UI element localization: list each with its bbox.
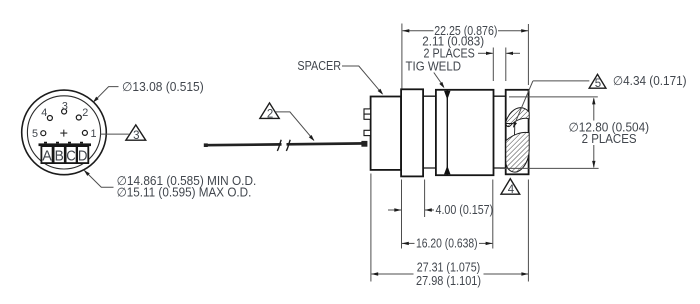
dim 22.25 <box>402 24 528 38</box>
flag triangle 4 <box>501 179 520 197</box>
svg-text:∅13.08 (0.515): ∅13.08 (0.515) <box>122 80 204 94</box>
svg-text:C: C <box>66 149 76 165</box>
weld bead bottom <box>444 166 451 175</box>
svg-text:5: 5 <box>595 78 601 90</box>
svg-text:2: 2 <box>267 108 273 120</box>
svg-text:2 PLACES: 2 PLACES <box>424 47 475 61</box>
terminal box D <box>77 146 88 165</box>
connector face outer circle <box>22 90 107 175</box>
extension line body left bottom <box>370 174 372 282</box>
neck 2 lines <box>494 96 506 168</box>
pin 3 <box>62 109 67 114</box>
extension line neck2 right <box>505 48 507 82</box>
connector body rect <box>371 97 402 170</box>
wire break marks <box>277 140 290 151</box>
lens upper section <box>506 108 529 127</box>
svg-text:4: 4 <box>508 184 515 196</box>
svg-text:3: 3 <box>133 130 139 142</box>
body tab lower <box>364 130 371 135</box>
svg-text:27.98 (1.101): 27.98 (1.101) <box>416 274 481 288</box>
tig weld leader <box>434 73 445 89</box>
svg-text:∅4.34 (0.171): ∅4.34 (0.171) <box>613 74 687 88</box>
pin 2 <box>76 115 81 120</box>
pin 5 <box>41 131 46 136</box>
terminal box B <box>54 146 65 165</box>
dim 16.20 <box>402 237 493 251</box>
lens lower section <box>506 132 529 172</box>
leader dia 14.861 <box>84 170 114 187</box>
extension line neck bottom right <box>500 167 599 169</box>
body tab upper B <box>364 114 371 119</box>
spacer rect <box>401 89 423 176</box>
body tab upper A <box>364 109 371 114</box>
spacer leader <box>342 66 383 95</box>
svg-text:D: D <box>78 149 88 165</box>
weld bead top <box>444 91 451 100</box>
flag triangle 3 <box>126 125 146 142</box>
extension line neck top right <box>509 96 598 98</box>
pin 1 <box>82 130 87 135</box>
leader from triangle 2 to wire <box>276 112 315 141</box>
weld housing rect <box>436 90 494 175</box>
svg-text:A: A <box>42 149 52 165</box>
terminal box A <box>41 146 52 165</box>
terminal box C <box>66 146 77 165</box>
dim 4.00 <box>388 203 493 217</box>
end cap rect <box>506 90 529 175</box>
lead wire <box>204 141 368 147</box>
dim 27.31 27.98 <box>371 261 528 288</box>
svg-text:TIG WELD: TIG WELD <box>406 60 462 74</box>
extension line housing right bottom <box>492 180 494 249</box>
bar stubs <box>46 142 82 144</box>
svg-text:B: B <box>55 149 64 165</box>
dim dia 12.80 vertical <box>569 97 650 167</box>
extension line body-spacer top <box>401 24 403 89</box>
svg-text:4.00 (0.157): 4.00 (0.157) <box>436 203 494 217</box>
extension line body-spacer bottom <box>401 180 403 249</box>
flag triangle 2 <box>260 103 279 121</box>
extension line cap right bottom <box>527 180 529 282</box>
svg-text:1: 1 <box>91 128 97 140</box>
connector face inner circle <box>27 96 100 169</box>
svg-text:4: 4 <box>41 107 47 119</box>
svg-text:∅15.11 (0.595) MAX O.D.: ∅15.11 (0.595) MAX O.D. <box>117 186 252 200</box>
svg-text:27.31 (1.075): 27.31 (1.075) <box>417 261 480 275</box>
svg-text:2 PLACES: 2 PLACES <box>582 132 637 146</box>
leader from triangle 5 to lens <box>513 81 589 128</box>
extension line neck2 left <box>492 48 494 82</box>
extension line cap right top <box>527 24 529 85</box>
svg-text:2: 2 <box>82 107 88 119</box>
pin 4 <box>47 116 52 121</box>
svg-text:3: 3 <box>62 100 68 112</box>
extension line spacer right bottom <box>424 180 426 218</box>
leader to triangle 3 <box>100 133 129 135</box>
leader dia 13.08 <box>93 87 119 103</box>
lens bore lines <box>506 124 515 140</box>
weld joint line <box>446 91 448 175</box>
flag triangle 5 <box>589 74 606 90</box>
neck 1 lines <box>423 96 436 168</box>
svg-text:5: 5 <box>32 128 38 140</box>
center cross <box>60 130 67 137</box>
dim 2 places text and arrows <box>424 47 520 61</box>
keying bar <box>39 143 92 146</box>
svg-text:SPACER: SPACER <box>297 59 341 73</box>
svg-text:16.20 (0.638): 16.20 (0.638) <box>416 237 478 251</box>
